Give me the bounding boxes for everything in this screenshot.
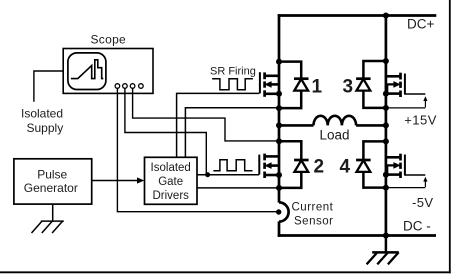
scope terminal jack 1 xyxy=(115,84,120,89)
+15V return wire xyxy=(387,107,425,109)
pulse generator ground stub wire xyxy=(52,204,54,221)
diode D3 xyxy=(356,61,385,108)
svg-text:Supply: Supply xyxy=(27,121,64,135)
transistor Q1 (MOSFET) xyxy=(260,72,280,97)
diode D1 xyxy=(280,62,309,109)
pulse generator label xyxy=(24,168,78,196)
right leg wire xyxy=(385,14,388,237)
DC+ top rail xyxy=(278,14,437,17)
svg-text:DC+: DC+ xyxy=(407,17,434,32)
wire scope jack3 to phase node xyxy=(133,88,278,141)
pulse generator box xyxy=(14,159,92,204)
svg-text:Drivers: Drivers xyxy=(152,190,189,202)
svg-text:Load: Load xyxy=(320,127,350,142)
svg-text:3: 3 xyxy=(343,77,354,98)
junction dot bottom rail / ground xyxy=(383,233,389,239)
scope waveform xyxy=(71,60,103,79)
junction dot diode D3 top xyxy=(383,58,389,64)
transistor Q3 (MOSFET mirrored) xyxy=(385,73,405,97)
wire gate driver return to source of Q1 xyxy=(185,108,277,158)
scope terminal jack 2 xyxy=(123,84,128,89)
ground (DC- rail) xyxy=(367,236,399,265)
gate lead Q4 xyxy=(405,174,425,176)
+15V arrow xyxy=(423,96,427,107)
junction dot source Q1 xyxy=(276,91,282,97)
junction dot source Q3 xyxy=(383,91,389,97)
svg-text:Pulse: Pulse xyxy=(37,168,67,182)
junction dot load left xyxy=(276,122,282,128)
frame bottom xyxy=(0,271,451,273)
diode D2 xyxy=(280,141,309,188)
wire gate driver to gate of Q2 xyxy=(197,174,259,176)
svg-text:1: 1 xyxy=(312,77,323,98)
isolated supply wire xyxy=(34,71,63,102)
frame right xyxy=(449,0,451,273)
svg-text:Scope: Scope xyxy=(91,33,127,47)
left leg upper wire xyxy=(278,14,281,202)
load inductor xyxy=(279,116,386,126)
junction dot source Q2 xyxy=(276,172,282,178)
junction dot diode D2 bottom xyxy=(276,185,282,191)
left leg lower wire xyxy=(278,221,281,236)
svg-text:2: 2 xyxy=(314,157,325,178)
junction dot diode D1 bottom xyxy=(276,105,282,111)
isolated supply label xyxy=(21,107,63,136)
gate-2 waveform glyph xyxy=(213,160,252,171)
junction dot diode D4 bottom xyxy=(383,185,389,191)
ground (pulse generator) xyxy=(32,221,64,233)
svg-text:Sensor: Sensor xyxy=(294,216,333,228)
junction dot diode D1 top xyxy=(276,59,282,65)
junction dot top rail / right leg xyxy=(383,13,389,19)
diode D4 xyxy=(356,141,385,187)
scope terminal jack 4 xyxy=(139,84,144,89)
junction dot diode D4 top xyxy=(383,138,389,144)
svg-text:DC -: DC - xyxy=(403,219,431,234)
svg-text:Current: Current xyxy=(292,202,334,214)
junction dot diode D2 top / phase sense xyxy=(276,138,282,144)
current sensor dot xyxy=(276,209,281,214)
svg-text:Generator: Generator xyxy=(24,181,78,195)
transistor Q4 (MOSFET mirrored) xyxy=(385,154,405,178)
svg-text:SR Firing: SR Firing xyxy=(210,65,256,77)
DC- bottom rail xyxy=(278,234,436,237)
wire gate driver to gate of Q1 xyxy=(177,93,260,157)
current sensor arc xyxy=(279,202,289,221)
junction dot on gate-2 wire xyxy=(205,172,210,177)
svg-text:-5V: -5V xyxy=(412,195,433,210)
svg-text:4: 4 xyxy=(340,157,351,178)
junction dot diode D3 bottom xyxy=(383,105,389,111)
junction dot load right xyxy=(383,122,389,128)
scope screen xyxy=(68,53,106,90)
isolated gate drivers box xyxy=(145,157,198,204)
scope terminal jack 3 xyxy=(130,84,135,89)
wire scope jack1 to current sensor xyxy=(117,88,277,212)
isolated gate drivers label xyxy=(151,162,191,202)
SR firing waveform glyph xyxy=(212,79,253,90)
svg-text:+15V: +15V xyxy=(404,113,437,128)
gate lead Q3 xyxy=(405,93,425,95)
-5V arrow xyxy=(423,177,427,187)
scope box xyxy=(63,49,153,94)
svg-text:Isolated: Isolated xyxy=(21,107,63,121)
wire gate driver return to source of Q2 xyxy=(197,187,278,189)
current sensor label xyxy=(292,202,334,228)
svg-text:Isolated: Isolated xyxy=(151,162,191,174)
svg-text:Gate: Gate xyxy=(158,176,183,188)
wire pulse generator to gate drivers (arrow) xyxy=(92,177,145,183)
transistor Q2 (MOSFET) xyxy=(259,154,280,178)
-5V return wire xyxy=(387,187,425,189)
wire scope jack2 to gate-2 net xyxy=(125,88,206,175)
junction dot source Q4 xyxy=(383,172,389,178)
